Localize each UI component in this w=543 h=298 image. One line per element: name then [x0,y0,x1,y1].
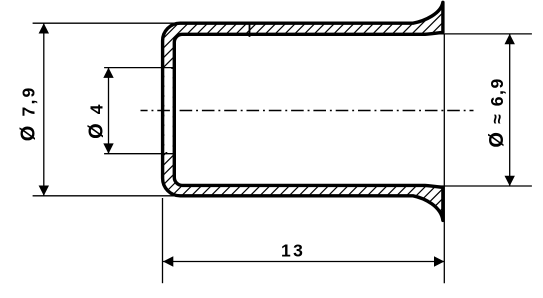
svg-text:Ø 7,9: Ø 7,9 [17,86,39,142]
svg-text:Ø 4: Ø 4 [86,102,108,138]
svg-text:Ø ≈ 6,9: Ø ≈ 6,9 [486,77,508,147]
svg-text:13: 13 [281,241,305,261]
